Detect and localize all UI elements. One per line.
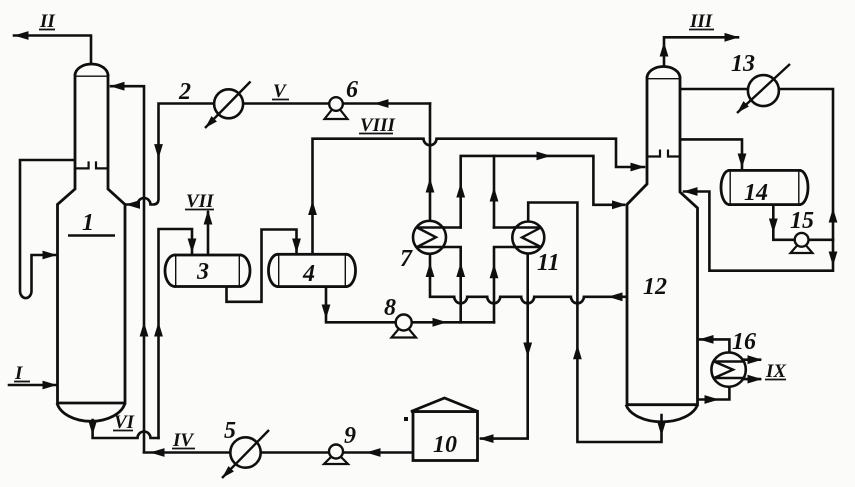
arrow into column 1 at shoulder [126, 200, 141, 209]
column 1 level line [68, 234, 115, 236]
wire drum 14 outlet to pump 15 [773, 205, 833, 240]
pump 9 [324, 445, 348, 465]
svg-text:6: 6 [346, 77, 358, 103]
reboiler 16 [711, 352, 745, 386]
arrow VII up [204, 210, 213, 225]
arrow III out [725, 33, 740, 42]
arrow pump 8 discharge [433, 318, 448, 327]
wire HX11 tube stubs [494, 228, 514, 323]
arrow down into drum 14 [738, 154, 747, 169]
svg-text:16: 16 [732, 329, 756, 355]
wire HX11 shell inlet from column 12 bottoms riser [528, 203, 661, 443]
wire drum 3 bottoms U-pipe to drum 4 [227, 230, 297, 302]
wire column 12 overhead product through cooler 13 [680, 89, 833, 271]
arrow column 1 bottoms down [88, 421, 97, 436]
arrow IX top [748, 355, 763, 364]
heat exchanger 7 [413, 221, 446, 254]
svg-text:5: 5 [224, 418, 236, 444]
arrow right into column 12 wide top [612, 200, 627, 209]
arrow up x494 upper [490, 187, 499, 202]
cooler 5 [222, 430, 269, 478]
drum 3 [165, 255, 250, 287]
arrow into column 12 right side [683, 187, 698, 196]
wire column 12 draw to HX7 with hops [430, 237, 626, 303]
svg-text:2: 2 [178, 79, 191, 105]
column 1 [57, 64, 125, 421]
arrow down into drum 4 [292, 239, 301, 254]
svg-text:15: 15 [790, 208, 814, 234]
arrow down drum 4 outlet [322, 305, 331, 320]
cooler 13 [737, 64, 790, 113]
tank 10 [411, 398, 478, 461]
arrow down column 12 bottoms [657, 422, 666, 437]
svg-text:9: 9 [344, 423, 356, 449]
arrow into tank 10 [479, 434, 494, 443]
pump 15 [791, 233, 813, 253]
pump 6 [325, 97, 348, 119]
column 1 tray mark [75, 161, 108, 168]
arrow up x430 upper [426, 178, 435, 193]
arrow down on line 2 [154, 144, 163, 159]
column 12 [626, 67, 698, 422]
svg-text:7: 7 [400, 246, 413, 272]
wire feed to drum 14 [680, 139, 742, 168]
arrow IX bottom [748, 375, 763, 384]
svg-text:8: 8 [384, 295, 396, 321]
drum 4 [268, 254, 355, 286]
arrow up III stem [660, 42, 669, 57]
wire drum 4 vapor riser and VIII header [313, 139, 645, 255]
svg-text:10: 10 [433, 432, 457, 458]
svg-text:1: 1 [82, 210, 94, 236]
wire feed I into column 1 [9, 384, 56, 387]
arrow up riser x144 [140, 322, 149, 337]
arrow VIII into column 12 [631, 163, 646, 172]
arrow into pump 9 [366, 448, 381, 457]
arrow down drum 14 outlet [769, 219, 778, 234]
arrow feed I [43, 381, 58, 390]
arrow up riser x158 [154, 322, 163, 337]
arrow up column 12 bottoms riser [573, 345, 582, 360]
wire HX11 outlet riser joining feed line [493, 156, 496, 228]
arrow U-seal into column 1 [43, 251, 58, 260]
wire HX7 outlet to column 12 feed line [461, 156, 624, 228]
pump 8 [392, 315, 417, 338]
wire III overhead from column 12 [664, 37, 738, 66]
wire vertical pump6 feed from HX7 [429, 104, 432, 222]
wire pump 8 suction from drum 4 [326, 287, 494, 323]
arrow up x460 upper [456, 183, 465, 198]
wire II overhead line from column 1 [14, 36, 91, 65]
tank 10 vent dot [404, 417, 408, 421]
wire VII vapor from drum 3 [207, 212, 210, 255]
wire HX7 tube stubs [443, 228, 461, 323]
wire reflux line 2 to column 1 (hop over x=144) [126, 104, 430, 205]
svg-text:3: 3 [196, 259, 209, 285]
arrow up x430 lower [426, 263, 435, 278]
arrow down right riser x833 [829, 252, 838, 267]
arrow left column 12 draw to HX7 [608, 292, 623, 301]
arrow into pump 6 line [374, 99, 389, 108]
arrow right on feed line to column 12 [537, 152, 552, 161]
svg-text:13: 13 [731, 51, 755, 77]
drum 14 [721, 170, 808, 204]
wire reboiler 16 loop top [700, 339, 729, 354]
wire U-seal pipe left of column 1 [20, 160, 75, 298]
svg-text:11: 11 [537, 250, 560, 276]
heat exchanger 11 [512, 222, 544, 254]
svg-text:12: 12 [643, 274, 667, 300]
arrow II out [14, 31, 29, 40]
arrow down into drum 3 [188, 239, 197, 254]
column 12 tray mark [647, 150, 680, 157]
wire recycle into column 1 top right [111, 86, 144, 452]
svg-text:4: 4 [302, 261, 315, 287]
arrow up x494 lower [490, 264, 499, 279]
arrow up x460 lower [456, 263, 465, 278]
condenser 2 (air cooler circle) [205, 82, 251, 129]
arrow reboiler bottom from column 12 [705, 395, 720, 404]
wire VI bottoms of column 1 (hop over x=144) [93, 420, 159, 438]
wire reboiler 16 loop bottom [698, 385, 730, 400]
wire IX heating medium arrows [744, 360, 760, 379]
arrow up vapor drum 4 [308, 201, 317, 216]
wire IV return line [144, 451, 413, 454]
labels: equipment numbers [82, 51, 814, 458]
arrow down HX11 to tank [523, 343, 532, 358]
wire riser to drum 3 feed [159, 229, 193, 438]
arrow into column 1 top right [110, 82, 125, 91]
wire HX11 bottom outlet to tank 10 [481, 254, 528, 439]
arrow up right riser x833 [829, 208, 838, 223]
svg-text:14: 14 [744, 180, 768, 206]
arrow IV into junction [150, 448, 165, 457]
arrow reboiler top into column 12 [699, 335, 714, 344]
